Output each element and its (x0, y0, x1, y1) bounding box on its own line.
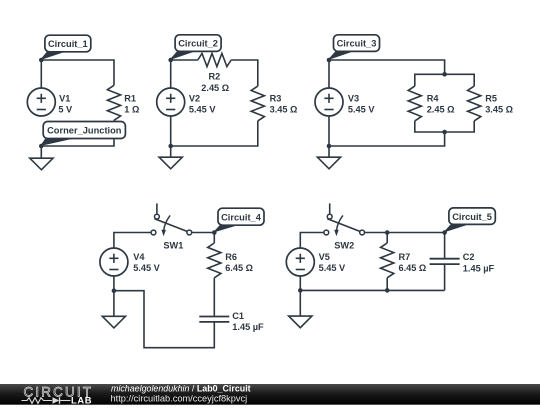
node circuit3 parallel bottom junction (442, 130, 447, 135)
flag label Circuit_1 (41, 51, 67, 60)
svg-text:R2: R2 (209, 72, 221, 82)
wire circuit2 top-right (231, 60, 258, 86)
switch SW1 right terminal (187, 230, 192, 235)
svg-text:5.45 V: 5.45 V (348, 105, 375, 115)
ground circuit3 (317, 157, 340, 169)
flag label Circuit_3 (329, 50, 356, 59)
svg-text:2.45 Ω: 2.45 Ω (201, 83, 229, 93)
resistor R5 (468, 86, 481, 121)
svg-text:5.45 V: 5.45 V (319, 263, 346, 273)
node Circuit_1 junction (39, 58, 44, 63)
wire circuit5 C2 bottom lead (444, 264, 446, 290)
svg-text:LAB: LAB (71, 394, 92, 405)
wire circuit5 C2 top lead (444, 233, 446, 259)
svg-text:Circuit_4: Circuit_4 (221, 212, 262, 222)
svg-text:R7: R7 (399, 252, 411, 262)
wire circuit4 source to switch (114, 233, 151, 249)
wire circuit2 source bottom lead (170, 116, 172, 146)
wire circuit5 ground lead (299, 290, 301, 316)
wire circuit2 bottom (171, 121, 258, 157)
switch SW2 top stub (329, 203, 331, 214)
wire circuit1 top (41, 60, 114, 88)
wire circuit3 parallel bottom bus (415, 121, 474, 132)
node circuit3 bottom-left (327, 144, 332, 149)
wire circuit5 R7 bottom lead (386, 278, 388, 291)
switch SW1 top stub (156, 203, 158, 214)
voltage source V2 (157, 88, 185, 116)
svg-text:6.45 Ω: 6.45 Ω (399, 263, 427, 273)
wire circuit3 bottom (329, 132, 445, 157)
wire circuit4 R6 to C1 (213, 278, 215, 317)
resistor R2 (horizontal) (198, 53, 231, 66)
node circuit2 top-left (168, 58, 173, 63)
svg-text:Circuit_3: Circuit_3 (337, 39, 377, 49)
capacitor C2 (430, 258, 460, 260)
switch SW2 left terminal (324, 230, 329, 235)
node circuit3 top-left (327, 58, 332, 63)
svg-text:1.45 µF: 1.45 µF (463, 263, 495, 273)
svg-text:SW1: SW1 (163, 241, 183, 251)
svg-text:3.45 Ω: 3.45 Ω (485, 105, 513, 115)
svg-text:V5: V5 (319, 252, 330, 262)
voltage source V5 (286, 248, 314, 276)
wire circuit4 switch to node (192, 232, 215, 234)
wire circuit4 ground lead (113, 291, 115, 317)
svg-text:V3: V3 (348, 94, 359, 104)
resistor R3 (251, 86, 264, 121)
switch SW2 right terminal (360, 230, 365, 235)
voltage source V1 (27, 88, 55, 116)
svg-text:3.45 Ω: 3.45 Ω (270, 105, 298, 115)
svg-text:V2: V2 (189, 94, 200, 104)
svg-text:R1: R1 (124, 94, 136, 104)
node circuit3 parallel top junction (442, 72, 447, 77)
resistor R6 (208, 243, 221, 278)
switch SW1 left terminal (151, 230, 156, 235)
wire circuit4 node to R6 (213, 233, 215, 244)
node circuit5 C2 top junction (442, 230, 447, 235)
svg-text:V4: V4 (133, 252, 145, 262)
node circuit2 bottom-left (168, 144, 173, 149)
capacitor C1 (199, 316, 229, 318)
switch SW2 arm (327, 219, 360, 232)
svg-text:http://circuitlab.com/cceyjcf8: http://circuitlab.com/cceyjcf8kpvcj (111, 394, 248, 404)
svg-text:Circuit_2: Circuit_2 (178, 39, 218, 49)
wire circuit5 switch to nodes (365, 232, 445, 234)
ground circuit1 (30, 158, 53, 170)
svg-text:V1: V1 (59, 94, 70, 104)
switch SW2 top contact (327, 214, 332, 219)
switch SW2 actuation arrow (337, 215, 343, 231)
wire circuit4 C1 bottom loop (114, 291, 214, 348)
node circuit5 R7 top junction (385, 230, 390, 235)
svg-text:R6: R6 (225, 252, 237, 262)
wire circuit1 bottom (41, 120, 114, 158)
svg-text:Circuit_1: Circuit_1 (48, 39, 88, 49)
svg-text:R4: R4 (427, 94, 440, 104)
CircuitLab logo diode (53, 397, 60, 403)
svg-text:R3: R3 (270, 94, 282, 104)
wire circuit5 source bottom lead (299, 276, 301, 290)
switch SW1 actuation arrow (164, 215, 170, 231)
wire circuit3 top (329, 60, 445, 88)
flag label Circuit_4 (214, 224, 240, 232)
wire circuit5 bottom (300, 289, 444, 291)
svg-text:SW2: SW2 (334, 241, 354, 251)
svg-text:Corner_Junction: Corner_Junction (47, 126, 122, 136)
resistor R1 (107, 85, 120, 120)
svg-text:R5: R5 (485, 94, 497, 104)
node circuit5 source bottom junction (298, 288, 303, 293)
svg-text:5 V: 5 V (58, 105, 73, 115)
flag label Corner_Junction (41, 137, 77, 145)
svg-text:Circuit_5: Circuit_5 (452, 212, 492, 222)
svg-text:5.45 V: 5.45 V (133, 263, 160, 273)
flag label Circuit_2 (171, 50, 197, 59)
wire circuit3 source bottom lead (328, 116, 330, 146)
CircuitLab logo squiggle wire (22, 398, 53, 404)
ground circuit2 (159, 157, 182, 169)
svg-text:C1: C1 (232, 311, 244, 321)
svg-text:6.45 Ω: 6.45 Ω (225, 263, 253, 273)
voltage source V3 (315, 88, 343, 116)
resistor R7 (381, 243, 394, 278)
switch SW1 top contact (155, 214, 160, 219)
wire circuit4 source bottom lead (113, 276, 115, 291)
wire circuit3 parallel top bus (415, 74, 474, 86)
resistor R4 (408, 86, 421, 121)
ground circuit4 (102, 316, 125, 328)
ground circuit5 (289, 316, 312, 328)
svg-text:michaelgolendukhin / Lab0_Circ: michaelgolendukhin / Lab0_Circuit (111, 384, 251, 394)
wire circuit5 R7 top lead (386, 233, 388, 244)
wire circuit2 left-top lead (171, 60, 198, 88)
wire circuit5 source to switch (300, 233, 324, 249)
svg-text:1 Ω: 1 Ω (124, 105, 139, 115)
voltage source V4 (100, 248, 128, 276)
switch SW1 arm (155, 219, 188, 232)
svg-text:5.45 V: 5.45 V (189, 105, 216, 115)
node circuit4 source bottom junction (112, 288, 117, 293)
flag label Circuit_5 (445, 223, 471, 232)
node circuit5 R7 bottom junction (385, 288, 390, 293)
svg-text:1.45 µF: 1.45 µF (232, 322, 264, 332)
svg-text:2.45 Ω: 2.45 Ω (427, 105, 455, 115)
node Corner_Junction dot (39, 144, 44, 149)
node circuit4 switch-R6 junction (212, 230, 217, 235)
svg-text:C2: C2 (463, 252, 475, 262)
